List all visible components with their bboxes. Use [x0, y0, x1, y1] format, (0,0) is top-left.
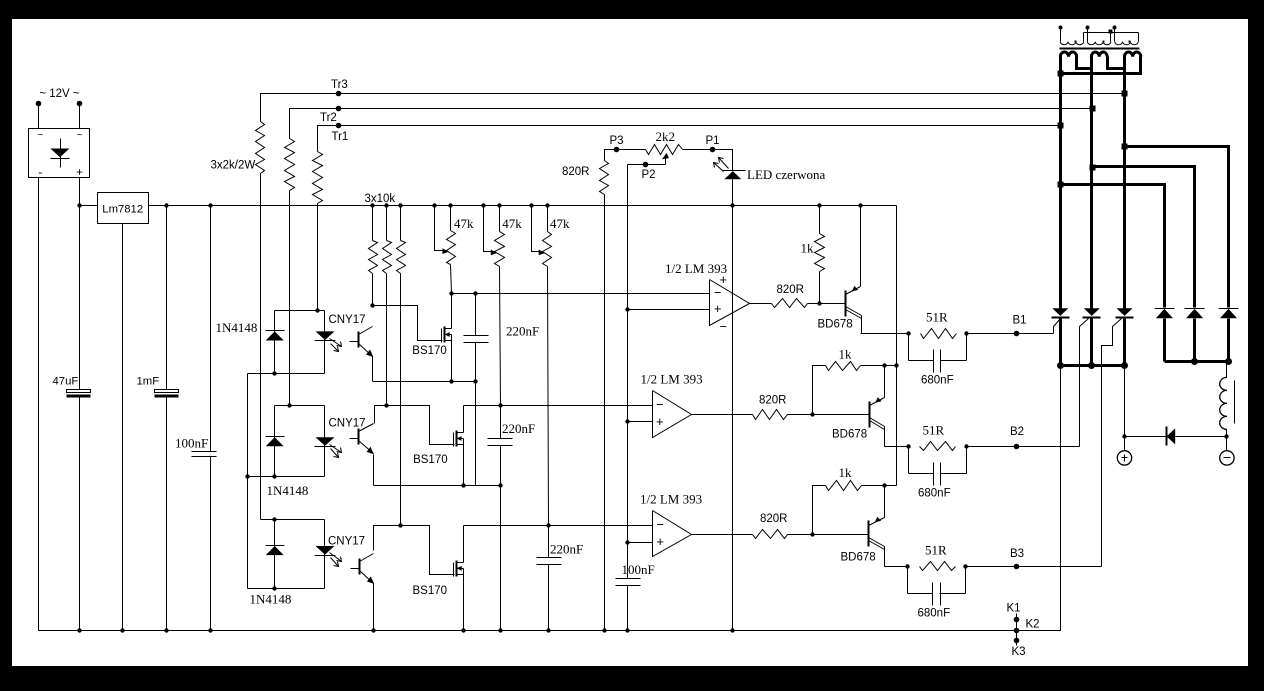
wire Tr2 line [290, 109, 1092, 139]
resistor R6 1k [813, 465, 897, 535]
wire Q1 collector to 51R [861, 333, 909, 335]
terminal plus [1117, 437, 1131, 466]
node P2 [642, 162, 656, 181]
svg-text:K3: K3 [1012, 646, 1026, 658]
wire phase A vertical [1058, 57, 1064, 309]
svg-text:680nF: 680nF [921, 375, 954, 387]
transformer secondary winding 2 [1091, 52, 1107, 57]
svg-text:1N4148: 1N4148 [250, 592, 292, 607]
svg-text:LED czerwona: LED czerwona [747, 167, 826, 182]
resistor R4 1k [801, 203, 825, 303]
node Tr2 [320, 106, 341, 124]
svg-text:2k2: 2k2 [656, 129, 676, 144]
wire SCR cathode bus [1057, 362, 1128, 369]
gate of Th2 [1080, 319, 1089, 447]
svg-text:1/2 LM 393: 1/2 LM 393 [665, 261, 727, 276]
svg-text:1/2 LM 393: 1/2 LM 393 [640, 492, 702, 507]
svg-text:51R: 51R [923, 423, 945, 438]
svg-text:220nF: 220nF [502, 421, 535, 436]
resistor R8 51R with capacitor C6 680nF [906, 423, 968, 500]
wire T1 drain to comparator rail [449, 291, 453, 328]
svg-text:CNY17: CNY17 [329, 314, 366, 326]
LED of U1 [315, 314, 366, 352]
svg-text:Tr2: Tr2 [320, 112, 337, 124]
+12V rail [77, 203, 896, 207]
wire 47k c to stage3 rail [548, 267, 549, 526]
wire stage1 to stage2 source link [475, 382, 477, 486]
wire secondary link 1-2 [1077, 57, 1092, 69]
wire T3 drain to comparator rail [464, 526, 653, 563]
wire T3 source to ground [461, 575, 465, 633]
diode D7 [1219, 309, 1239, 362]
svg-text:P2: P2 [642, 169, 656, 181]
trimmer 47k a [432, 203, 474, 264]
node K1 [1007, 603, 1021, 623]
wire primary common [1084, 30, 1139, 34]
wire T2 drain to comparator rail [464, 406, 653, 433]
svg-text:Tr1: Tr1 [332, 131, 349, 143]
svg-text:680nF: 680nF [918, 488, 951, 500]
svg-text:CNY17: CNY17 [329, 418, 366, 430]
svg-text:1N4148: 1N4148 [216, 320, 258, 335]
wire phase B branch to D6 [1092, 167, 1195, 308]
node Tr3 [331, 79, 348, 96]
wire Tr3 line [261, 94, 1125, 122]
svg-text:680nF: 680nF [918, 608, 951, 620]
regulator U4 Lm7812 [98, 193, 149, 224]
wire stage1 source rail [373, 357, 478, 384]
svg-text:3x10k: 3x10k [365, 193, 396, 205]
wire B2 line [967, 446, 1080, 448]
diode D6 [1185, 309, 1205, 362]
svg-text:47k: 47k [502, 216, 522, 231]
resistor R1 820R [772, 284, 808, 308]
phototransistor of U3 [351, 554, 375, 584]
node Tr1 [332, 123, 349, 143]
wire bridge plus down [79, 178, 81, 206]
svg-text:100nF: 100nF [622, 562, 655, 577]
optocoupler U1 CNY17 box [248, 308, 325, 375]
capacitor C3 220nF [537, 523, 584, 632]
phototransistor of U2 [350, 424, 374, 455]
wire opto cathode chain [248, 373, 275, 375]
svg-text:3x2k/2W: 3x2k/2W [211, 160, 256, 172]
wire op1 output to base [808, 301, 846, 305]
wire phase A branch to D5 [1061, 185, 1165, 308]
transistor Q1 BD678 [818, 203, 863, 333]
LED D4 czerwona [713, 150, 826, 208]
svg-text:1k: 1k [839, 347, 853, 362]
wire T2 source [463, 445, 465, 486]
wire stage3 gate node [374, 523, 455, 574]
svg-text:K1: K1 [1007, 603, 1021, 615]
svg-text:47k: 47k [454, 216, 474, 231]
svg-text:220nF: 220nF [550, 542, 583, 557]
wire op3 plus input [625, 540, 652, 544]
optocoupler U3 CNY17 box [248, 517, 325, 590]
wire Q3 collector to 51R [885, 566, 908, 568]
wire K terminal stub [1016, 614, 1018, 646]
svg-text:1/2 LM 393: 1/2 LM 393 [641, 372, 703, 387]
trimmer 47k c [529, 203, 570, 266]
svg-text:+: + [714, 301, 722, 316]
potentiometer 2k2 [617, 129, 713, 155]
wire stage2 source rail [374, 455, 503, 488]
thyristor Th1 [1052, 308, 1070, 365]
svg-text:51R: 51R [926, 310, 948, 325]
wire phase C vertical [1122, 57, 1128, 309]
phototransistor of U1 [350, 327, 374, 358]
transformer secondary winding 3 [1125, 52, 1141, 57]
diode D5 [1155, 309, 1175, 362]
node B2 [1010, 426, 1024, 449]
svg-text:−: − [656, 517, 664, 532]
svg-text:BD678: BD678 [841, 552, 876, 564]
svg-text:1k: 1k [839, 465, 853, 480]
wire phase B vertical [1090, 57, 1096, 309]
wire op3 output [692, 534, 753, 536]
diode D8 freewheel [1125, 427, 1227, 446]
transistor T3 BS170 [413, 561, 464, 598]
resistor R5 1k [813, 347, 887, 415]
resistor R2 820R [753, 395, 788, 420]
inductor field coil [1220, 362, 1235, 439]
resistor 2k 2W c [313, 152, 323, 311]
node B1 [1013, 315, 1027, 337]
svg-text:−: − [714, 285, 722, 300]
svg-text:CNY17: CNY17 [328, 536, 365, 548]
wire op2 output to base [788, 412, 870, 416]
bridge rectifier B1 [29, 129, 90, 180]
transistor Q2 BD678 [832, 366, 885, 447]
capacitor 47uF [53, 206, 91, 633]
wire 47k b to stage2 rail [500, 267, 501, 406]
svg-text:+: + [720, 272, 728, 287]
svg-text:B2: B2 [1010, 426, 1024, 438]
wire phase C branch to D7 [1125, 147, 1229, 308]
svg-text:Tr3: Tr3 [331, 79, 348, 91]
svg-text:820R: 820R [759, 395, 787, 407]
capacitor 100nF input [175, 203, 217, 632]
wire LED to ground [730, 206, 734, 633]
capacitor C1 220nF [464, 291, 540, 381]
wire bridge minus to ground rail [38, 178, 40, 631]
svg-text:100nF: 100nF [175, 436, 208, 451]
node K3 [1012, 638, 1026, 658]
wire ground rail to SCR bus [1017, 366, 1061, 631]
svg-text:220nF: 220nF [506, 324, 539, 339]
diode D2 1N4148 [266, 437, 309, 499]
transformer primary winding 2 [1086, 26, 1111, 45]
resistor R9 51R with capacitor C7 680nF [905, 543, 967, 620]
wire T1 source [451, 341, 453, 382]
gate of Th1 [1054, 319, 1061, 334]
wire B1 line [967, 333, 1054, 335]
resistor 10k a [369, 203, 378, 305]
LED of U3 [315, 536, 366, 567]
resistor R7 51R with capacitor C5 680nF [906, 310, 968, 387]
svg-text:P3: P3 [610, 135, 624, 147]
svg-text:820R: 820R [562, 166, 590, 178]
svg-text:Lm7812: Lm7812 [102, 203, 143, 215]
wire secondary link 2-3 [1108, 57, 1125, 69]
resistor 2k 2W b [285, 139, 295, 406]
wire stage1 minus rail [452, 293, 710, 295]
capacitor C2 220nF [488, 403, 536, 485]
svg-text:47uF: 47uF [53, 376, 79, 388]
svg-text:BD678: BD678 [832, 429, 867, 441]
wire +12V drop line [896, 206, 898, 486]
wire stage2 source to ground [500, 486, 502, 631]
transistor Q3 BD678 [841, 486, 885, 567]
svg-text:B3: B3 [1010, 548, 1024, 560]
op-amp IC3 1/2 LM 393 [640, 492, 702, 557]
wire op3 output to base [788, 532, 869, 536]
svg-text:P1: P1 [706, 135, 720, 147]
svg-text:+: + [76, 165, 83, 179]
svg-text:1mF: 1mF [137, 376, 160, 388]
terminal minus [1220, 437, 1234, 466]
wire op1 plus input [625, 307, 709, 311]
transformer primary winding 3 [1113, 26, 1139, 45]
svg-text:~: ~ [77, 130, 83, 141]
thyristor Th3 [1116, 308, 1134, 365]
svg-text:B1: B1 [1013, 315, 1027, 327]
resistor 2k 2W a [256, 122, 265, 520]
svg-text:820R: 820R [777, 284, 805, 296]
svg-text:1k: 1k [801, 241, 815, 256]
LED of U2 [315, 418, 366, 458]
wire 47k a to stage1 rail [451, 265, 452, 294]
resistor R3 820R [753, 513, 788, 539]
wire secondary return [1058, 57, 1141, 77]
transistor T1 BS170 [412, 327, 451, 358]
capacitor 1mF [137, 203, 179, 632]
svg-text:BD678: BD678 [818, 319, 853, 331]
LED D4 arrows [714, 158, 729, 172]
svg-text:-: - [38, 165, 42, 179]
svg-text:~ 12V ~: ~ 12V ~ [39, 88, 80, 100]
svg-text:−: − [720, 319, 728, 334]
wiper of 2k2 to P2 [628, 153, 669, 165]
capacitor C4 100nF [616, 543, 655, 633]
wire Lm7812 ground pin [120, 224, 124, 633]
svg-text:51R: 51R [925, 543, 947, 558]
transformer primary winding 1 [1059, 26, 1084, 45]
node P3 [610, 135, 624, 152]
svg-text:+: + [656, 414, 664, 429]
wire op2 plus input [625, 419, 652, 423]
wire plus node vertical [1122, 366, 1126, 439]
wire stage1 gate node [370, 303, 442, 340]
optocoupler U2 CNY17 box [248, 403, 325, 478]
wire U3 phototransistor emitter to ground [371, 584, 375, 633]
wire P2 reference line [627, 165, 629, 543]
svg-text:820R: 820R [760, 513, 788, 525]
svg-text:+: + [656, 534, 664, 549]
transistor T2 BS170 [413, 431, 463, 467]
ground rail [39, 630, 1017, 632]
node P1 [706, 135, 720, 152]
svg-text:−: − [656, 397, 664, 412]
op-amp IC1 1/2 LM 393 [665, 261, 750, 334]
op-amp IC2 1/2 LM 393 [641, 372, 703, 438]
diode D1 1N4148 [216, 320, 285, 341]
wire stage2 gate node [375, 403, 455, 444]
wire emitter node row2 to rail line [885, 363, 899, 367]
transformer secondary winding 1 [1060, 52, 1076, 57]
svg-text:BS170: BS170 [412, 345, 447, 357]
svg-text:~: ~ [37, 130, 43, 141]
wire Q2 collector to 51R [885, 446, 909, 448]
transformer core [1060, 48, 1140, 50]
svg-text:1N4148: 1N4148 [267, 483, 309, 498]
wire Tr1 line [318, 126, 1061, 152]
svg-text:47k: 47k [550, 216, 570, 231]
node B3 [1010, 548, 1024, 569]
wire op1 output [750, 303, 772, 305]
diode D3 1N4148 [250, 546, 292, 607]
gate of Th3 [1102, 319, 1122, 567]
resistor 10k b [383, 203, 392, 405]
svg-text:BS170: BS170 [413, 585, 448, 597]
resistor 10k c [397, 203, 406, 525]
svg-text:BS170: BS170 [413, 454, 448, 466]
resistor 820R reference [562, 150, 617, 633]
svg-text:K2: K2 [1026, 619, 1040, 631]
trimmer 47k b [481, 203, 522, 266]
wire op2 output [692, 414, 753, 416]
wire B3 line [966, 566, 1102, 568]
wire diode cathode bus [1165, 358, 1233, 365]
node AC input ~12V~ [36, 88, 83, 129]
thyristor Th2 [1083, 308, 1101, 365]
node K2 [1014, 619, 1040, 634]
